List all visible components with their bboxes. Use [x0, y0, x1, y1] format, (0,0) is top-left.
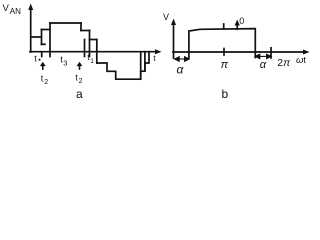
svg-text:π: π — [221, 59, 229, 71]
svg-text:2π: 2π — [277, 57, 291, 69]
svg-text:0: 0 — [239, 16, 244, 26]
svg-text:t: t — [153, 53, 156, 63]
svg-text:a: a — [76, 87, 83, 101]
svg-text:b: b — [222, 87, 229, 101]
svg-text:3: 3 — [63, 59, 67, 68]
svg-text:α: α — [177, 63, 185, 77]
svg-text:V: V — [163, 12, 169, 22]
svg-text:2: 2 — [79, 78, 83, 85]
svg-text:V: V — [3, 3, 10, 14]
svg-text:1: 1 — [90, 58, 94, 65]
svg-text:2: 2 — [44, 79, 48, 86]
svg-text:t: t — [34, 54, 37, 64]
svg-text:AN: AN — [10, 7, 21, 16]
svg-text:α: α — [260, 59, 267, 71]
svg-text:ωt: ωt — [296, 55, 306, 66]
